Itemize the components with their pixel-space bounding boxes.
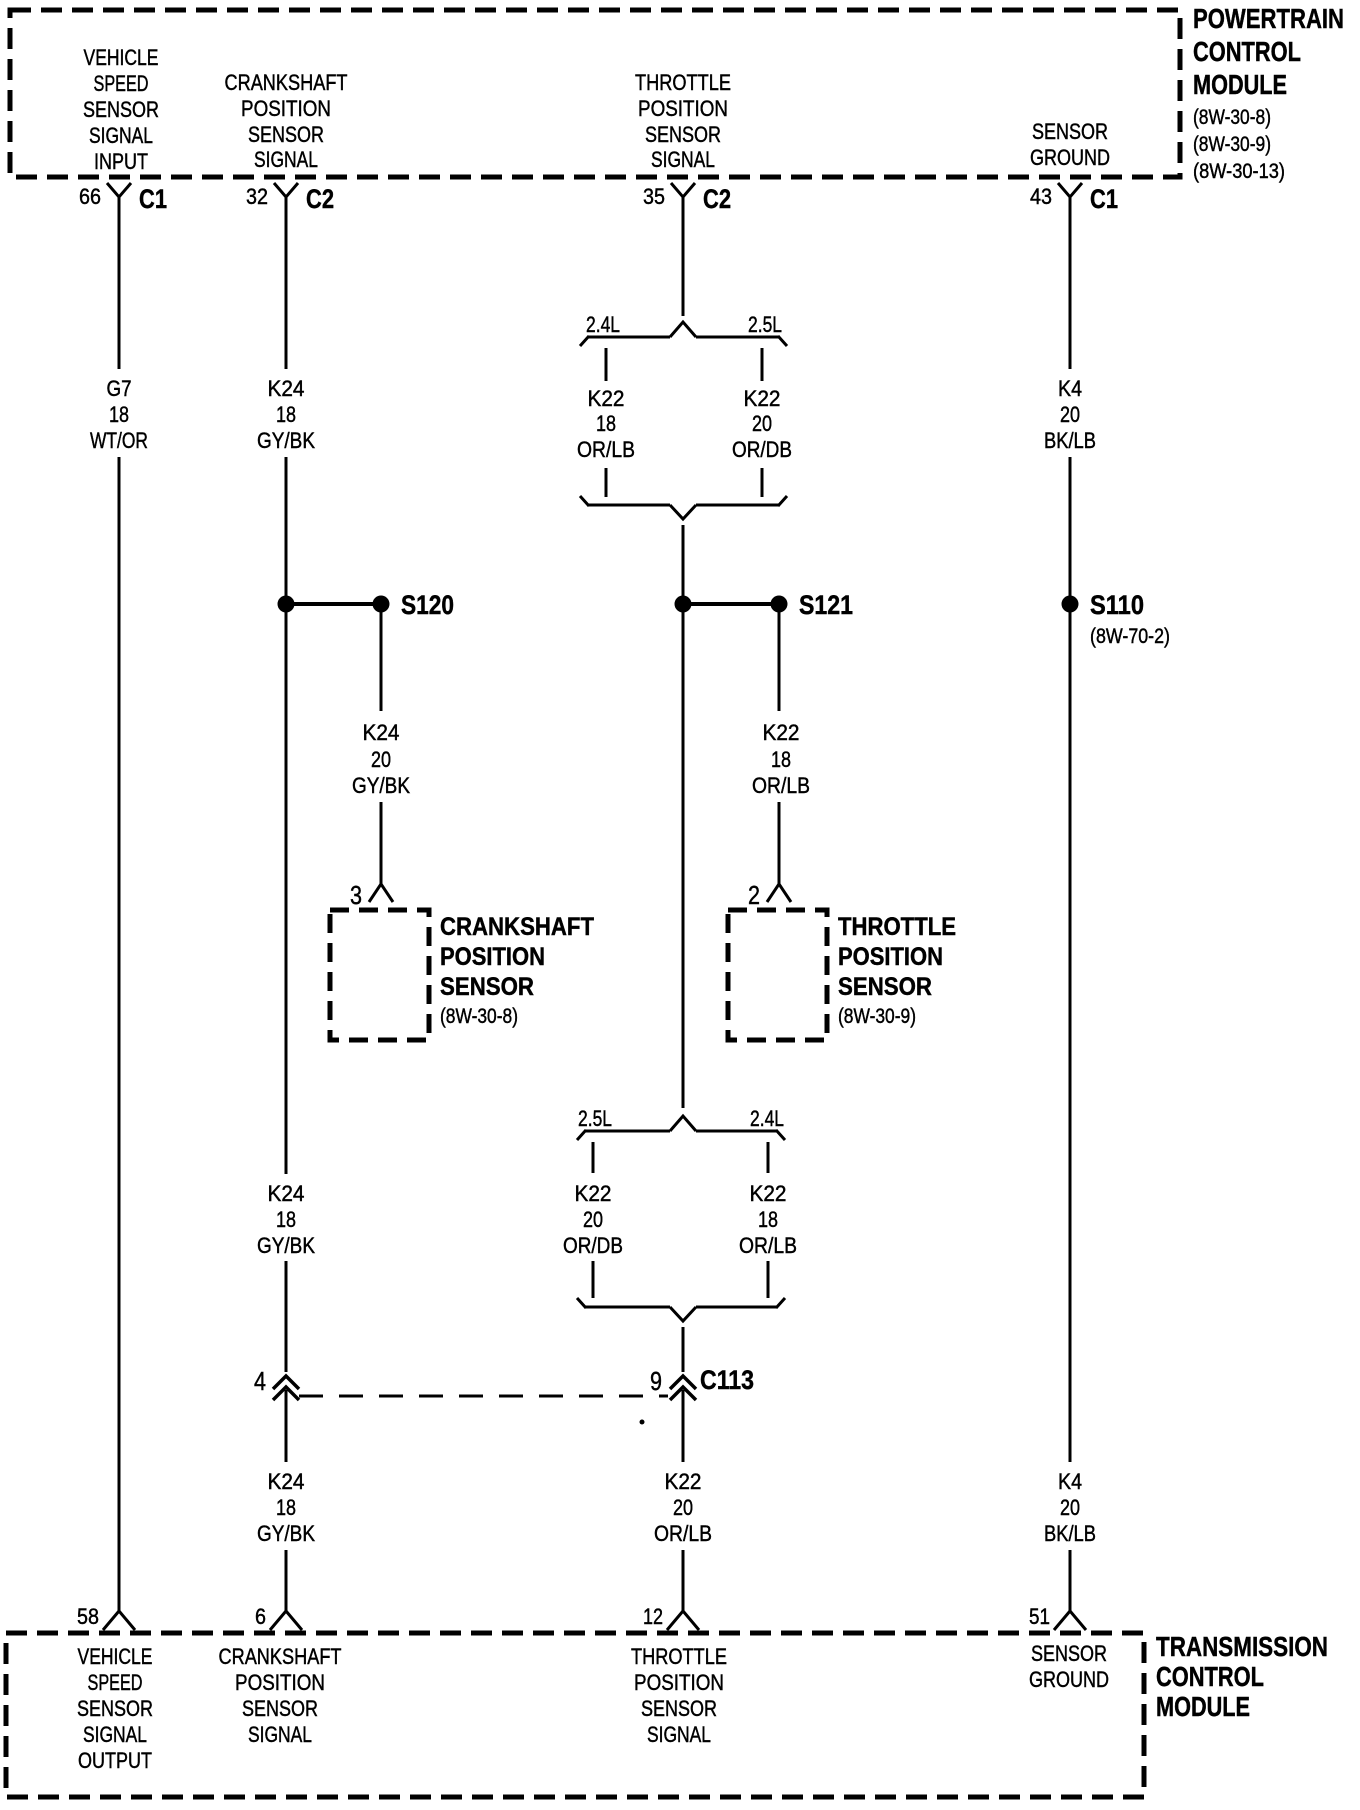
svg-text:GY/BK: GY/BK <box>257 1521 315 1546</box>
svg-text:GY/BK: GY/BK <box>352 773 410 798</box>
svg-text:S120: S120 <box>401 590 454 620</box>
svg-text:K4: K4 <box>1058 376 1082 401</box>
svg-text:18: 18 <box>276 1495 296 1520</box>
svg-text:SIGNAL: SIGNAL <box>83 1722 147 1747</box>
svg-text:SPEED: SPEED <box>94 71 149 96</box>
svg-text:4: 4 <box>254 1366 266 1396</box>
svg-text:INPUT: INPUT <box>94 149 148 174</box>
svg-text:K24: K24 <box>363 720 400 745</box>
svg-text:58: 58 <box>77 1604 99 1629</box>
svg-text:2.4L: 2.4L <box>750 1106 784 1131</box>
svg-text:K4: K4 <box>1058 1469 1082 1494</box>
svg-text:K22: K22 <box>750 1181 787 1206</box>
svg-text:3: 3 <box>350 880 362 910</box>
svg-text:OR/LB: OR/LB <box>739 1233 797 1258</box>
svg-text:6: 6 <box>255 1604 266 1629</box>
svg-text:K24: K24 <box>268 1469 305 1494</box>
svg-text:43: 43 <box>1030 184 1052 209</box>
svg-text:OR/LB: OR/LB <box>654 1521 712 1546</box>
svg-text:THROTTLE: THROTTLE <box>635 70 731 95</box>
svg-text:K22: K22 <box>665 1469 702 1494</box>
svg-text:WT/OR: WT/OR <box>90 428 148 453</box>
svg-text:SIGNAL: SIGNAL <box>254 147 318 172</box>
svg-text:K22: K22 <box>575 1181 612 1206</box>
svg-text:THROTTLE: THROTTLE <box>838 913 956 941</box>
svg-text:(8W-30-8): (8W-30-8) <box>1193 106 1271 129</box>
svg-text:SENSOR: SENSOR <box>641 1696 717 1721</box>
svg-text:SENSOR: SENSOR <box>1031 1641 1107 1666</box>
svg-text:BK/LB: BK/LB <box>1044 428 1096 453</box>
svg-text:GROUND: GROUND <box>1030 145 1110 170</box>
svg-text:TRANSMISSION: TRANSMISSION <box>1156 1631 1328 1662</box>
svg-text:32: 32 <box>246 184 268 209</box>
svg-text:POSITION: POSITION <box>638 96 728 121</box>
svg-text:S110: S110 <box>1090 590 1144 620</box>
svg-text:POSITION: POSITION <box>634 1670 724 1695</box>
svg-text:(8W-30-9): (8W-30-9) <box>1193 133 1271 156</box>
svg-text:(8W-30-13): (8W-30-13) <box>1193 160 1285 183</box>
svg-text:CRANKSHAFT: CRANKSHAFT <box>225 70 348 95</box>
svg-text:18: 18 <box>596 411 616 436</box>
svg-text:SENSOR: SENSOR <box>242 1696 318 1721</box>
svg-text:SIGNAL: SIGNAL <box>651 147 715 172</box>
svg-text:20: 20 <box>1060 1495 1080 1520</box>
svg-text:SENSOR: SENSOR <box>1032 119 1108 144</box>
svg-text:SENSOR: SENSOR <box>83 97 159 122</box>
svg-text:POWERTRAIN: POWERTRAIN <box>1193 3 1344 34</box>
svg-text:CRANKSHAFT: CRANKSHAFT <box>219 1644 342 1669</box>
svg-text:POSITION: POSITION <box>838 943 943 971</box>
svg-text:OR/LB: OR/LB <box>577 437 635 462</box>
svg-text:OR/DB: OR/DB <box>563 1233 623 1258</box>
svg-text:(8W-30-9): (8W-30-9) <box>838 1005 916 1028</box>
svg-text:SENSOR: SENSOR <box>645 122 721 147</box>
svg-text:OR/LB: OR/LB <box>752 773 810 798</box>
svg-text:K24: K24 <box>268 1181 305 1206</box>
svg-text:18: 18 <box>758 1207 778 1232</box>
svg-text:SENSOR: SENSOR <box>248 122 324 147</box>
svg-text:(8W-70-2): (8W-70-2) <box>1090 625 1170 648</box>
svg-text:VEHICLE: VEHICLE <box>84 45 159 70</box>
svg-text:POSITION: POSITION <box>235 1670 325 1695</box>
svg-text:BK/LB: BK/LB <box>1044 1521 1096 1546</box>
svg-text:2.5L: 2.5L <box>748 312 782 337</box>
svg-text:20: 20 <box>371 747 391 772</box>
svg-text:SENSOR: SENSOR <box>440 973 534 1001</box>
svg-text:K22: K22 <box>763 720 800 745</box>
svg-text:POSITION: POSITION <box>440 943 545 971</box>
svg-text:C1: C1 <box>139 184 167 214</box>
svg-text:SIGNAL: SIGNAL <box>89 123 153 148</box>
svg-text:18: 18 <box>276 402 296 427</box>
svg-text:K24: K24 <box>268 376 305 401</box>
svg-text:C113: C113 <box>700 1365 754 1395</box>
svg-text:35: 35 <box>643 184 665 209</box>
svg-text:SENSOR: SENSOR <box>77 1696 153 1721</box>
svg-text:K22: K22 <box>588 386 625 411</box>
svg-text:66: 66 <box>79 184 101 209</box>
svg-text:20: 20 <box>1060 402 1080 427</box>
svg-text:S121: S121 <box>799 590 853 620</box>
svg-text:C1: C1 <box>1090 184 1118 214</box>
svg-text:SIGNAL: SIGNAL <box>647 1722 711 1747</box>
svg-text:MODULE: MODULE <box>1156 1691 1250 1722</box>
svg-text:20: 20 <box>673 1495 693 1520</box>
svg-text:18: 18 <box>276 1207 296 1232</box>
svg-text:SPEED: SPEED <box>88 1670 143 1695</box>
svg-text:18: 18 <box>771 747 791 772</box>
svg-text:CRANKSHAFT: CRANKSHAFT <box>440 913 594 941</box>
svg-text:SENSOR: SENSOR <box>838 973 932 1001</box>
svg-text:20: 20 <box>752 411 772 436</box>
svg-text:C2: C2 <box>703 184 731 214</box>
svg-text:CONTROL: CONTROL <box>1193 36 1301 67</box>
svg-text:9: 9 <box>650 1366 662 1396</box>
svg-text:51: 51 <box>1029 1604 1050 1629</box>
svg-text:GY/BK: GY/BK <box>257 1233 315 1258</box>
svg-text:MODULE: MODULE <box>1193 69 1287 100</box>
svg-text:C2: C2 <box>306 184 334 214</box>
svg-text:2.4L: 2.4L <box>586 312 620 337</box>
svg-text:G7: G7 <box>107 376 132 401</box>
svg-text:SIGNAL: SIGNAL <box>248 1722 312 1747</box>
svg-text:20: 20 <box>583 1207 603 1232</box>
svg-text:POSITION: POSITION <box>241 96 331 121</box>
svg-text:GROUND: GROUND <box>1029 1667 1109 1692</box>
svg-text:THROTTLE: THROTTLE <box>631 1644 727 1669</box>
svg-text:12: 12 <box>643 1604 663 1629</box>
svg-text:OR/DB: OR/DB <box>732 437 792 462</box>
svg-text:2: 2 <box>748 880 760 910</box>
svg-text:OUTPUT: OUTPUT <box>78 1748 152 1773</box>
svg-text:18: 18 <box>109 402 129 427</box>
svg-text:2.5L: 2.5L <box>578 1106 612 1131</box>
svg-text:VEHICLE: VEHICLE <box>78 1644 153 1669</box>
svg-text:GY/BK: GY/BK <box>257 428 315 453</box>
svg-text:K22: K22 <box>744 386 781 411</box>
svg-text:(8W-30-8): (8W-30-8) <box>440 1005 518 1028</box>
svg-text:CONTROL: CONTROL <box>1156 1661 1264 1692</box>
